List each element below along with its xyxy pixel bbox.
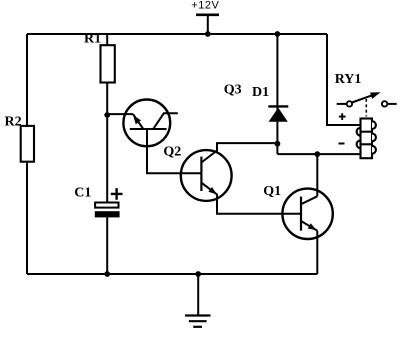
svg-text:R1: R1 <box>84 32 101 47</box>
svg-text:Q1: Q1 <box>263 184 281 199</box>
svg-text:RY1: RY1 <box>335 72 362 87</box>
svg-text:C1: C1 <box>74 186 91 201</box>
svg-text:Q2: Q2 <box>163 144 181 159</box>
svg-text:Q3: Q3 <box>224 82 242 97</box>
svg-text:+12V: +12V <box>191 0 219 12</box>
svg-text:R2: R2 <box>5 114 22 129</box>
svg-text:D1: D1 <box>252 85 269 100</box>
